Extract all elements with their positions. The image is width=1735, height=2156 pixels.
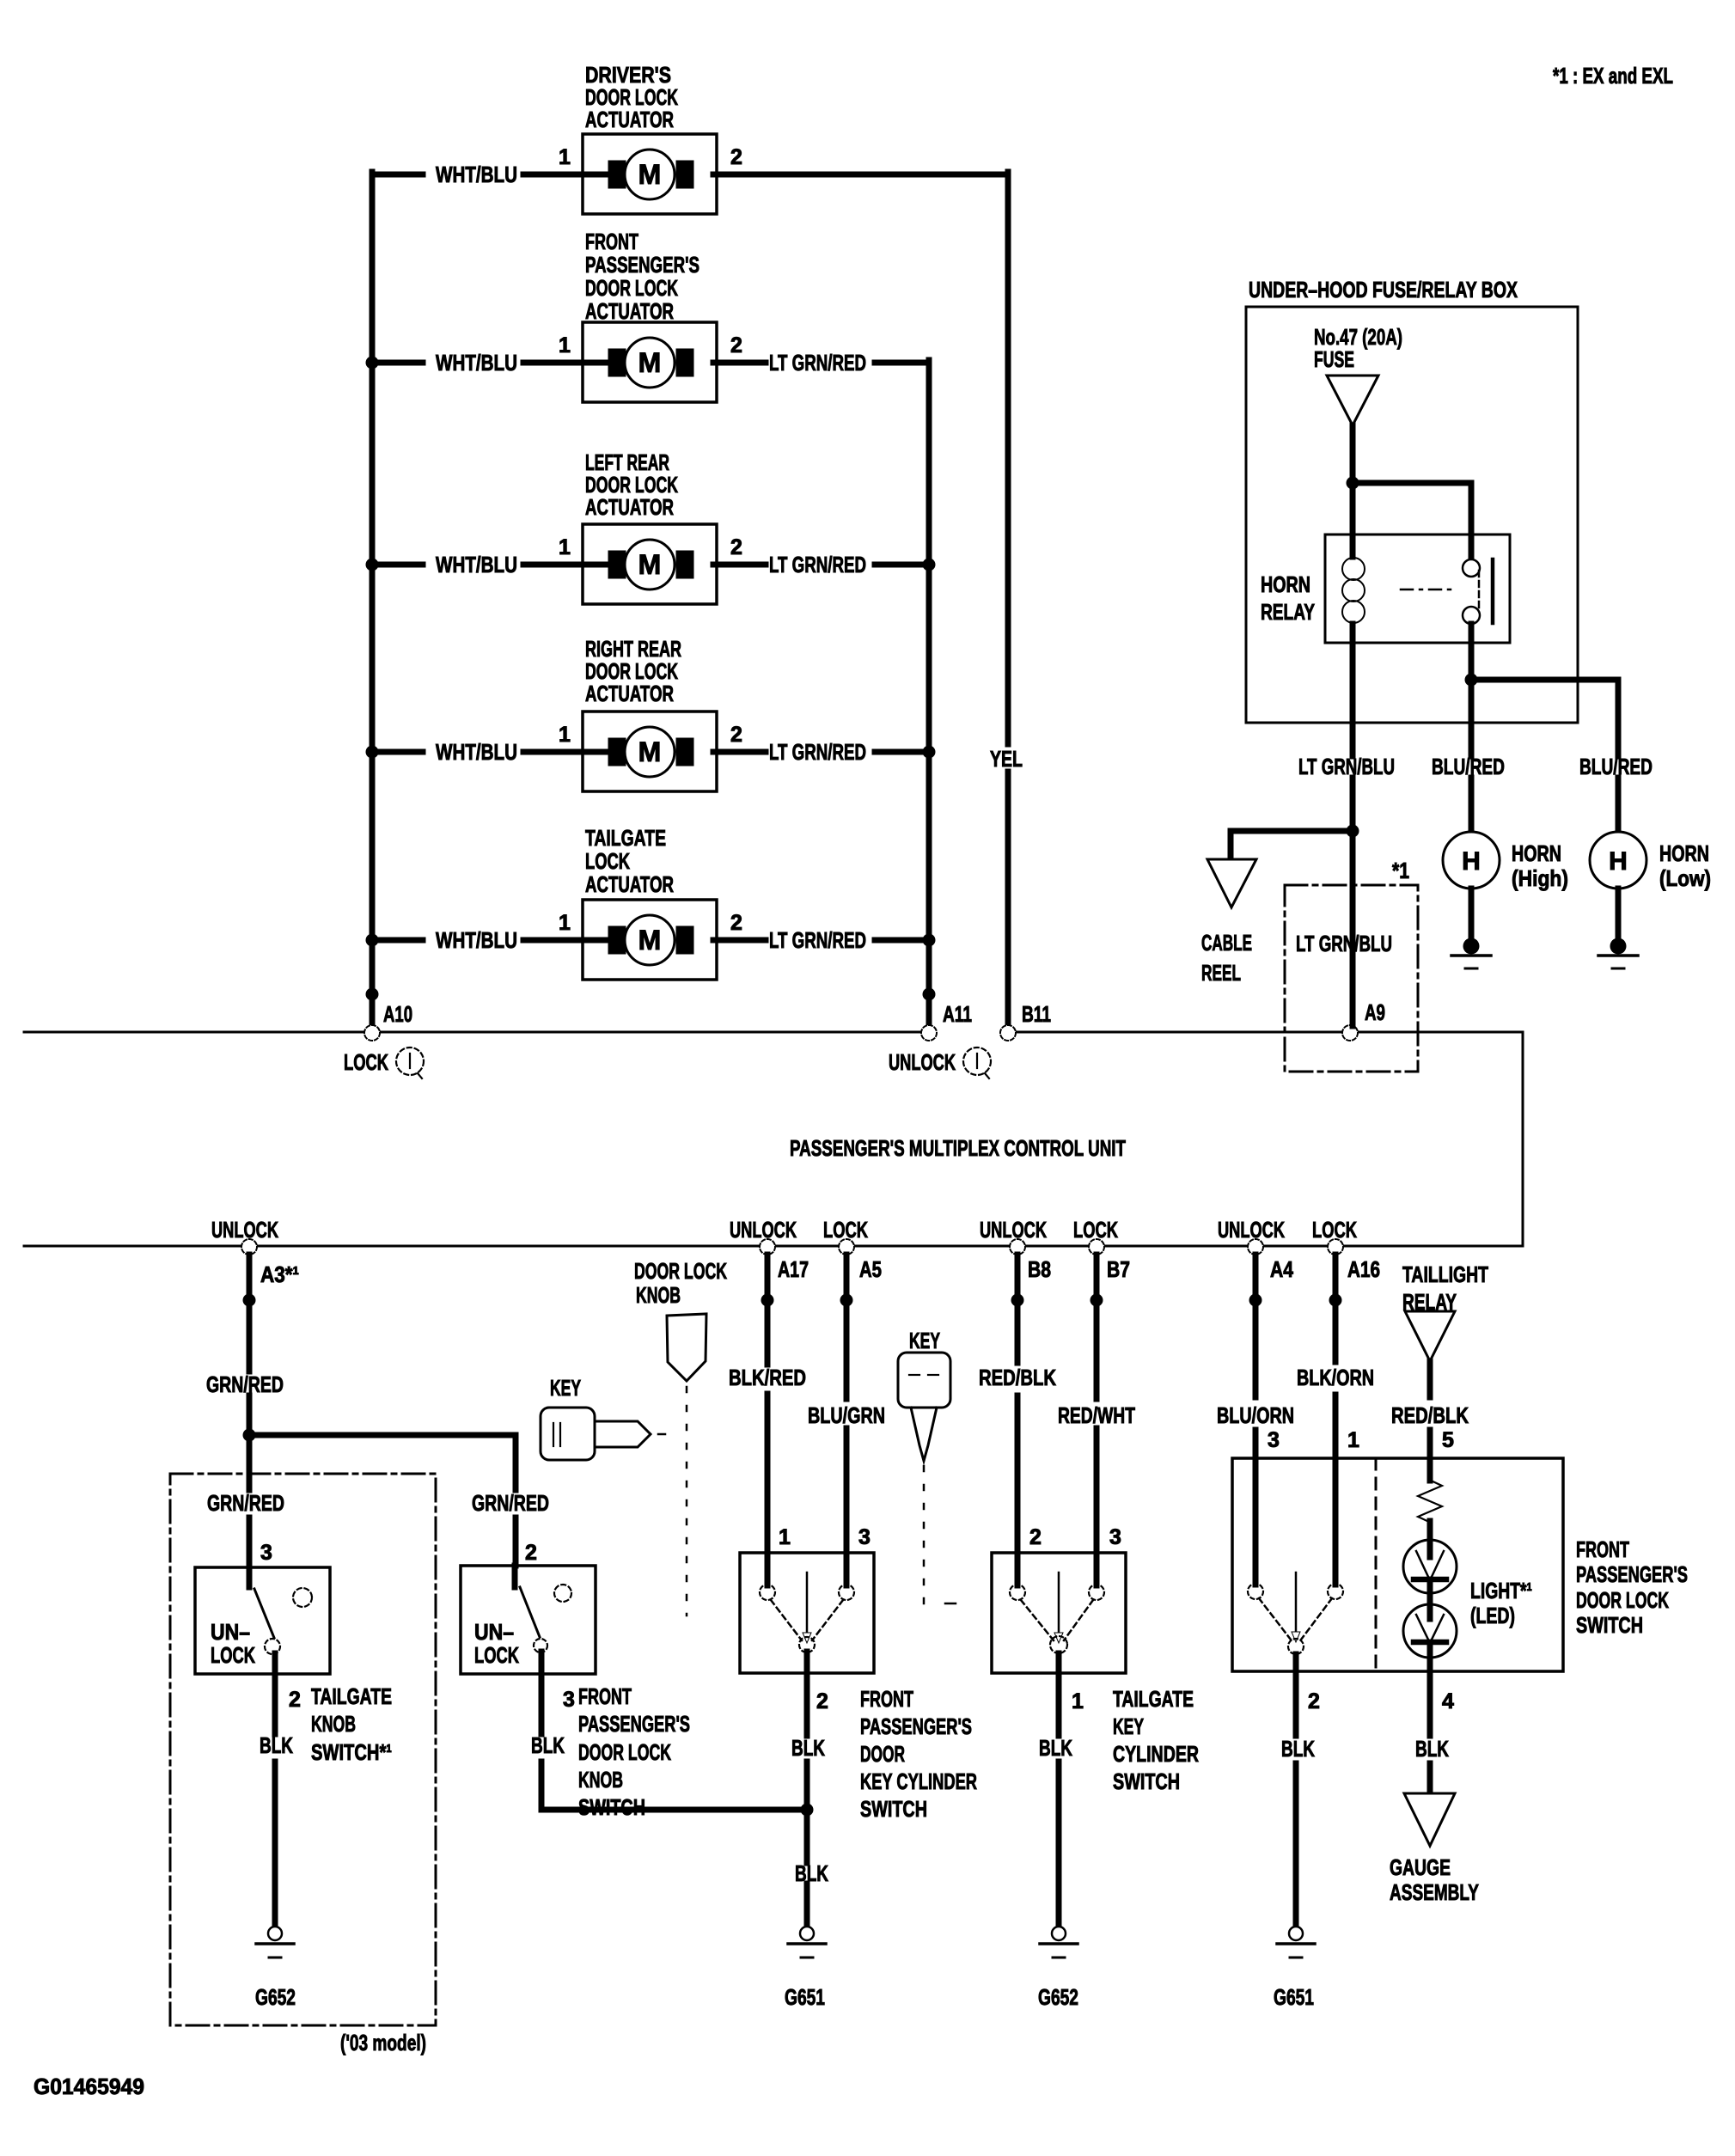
label under-hood fuse/relay box: [1249, 277, 1518, 302]
wire GRN/RED branch to knob switch 2: [249, 1435, 516, 1566]
ground horn low: [1598, 938, 1638, 969]
label No.47 (20A) FUSE: [1314, 324, 1402, 372]
wire passenger knob switch pin 3: [539, 1652, 545, 1810]
horn relay fixed contact bar: [1491, 559, 1495, 623]
wire relay coil to LT GRN/BLU: [1350, 624, 1356, 756]
label BLK/RED: [729, 1365, 806, 1390]
label BLK passenger knob: [531, 1732, 565, 1758]
key 2 link dash: [945, 1603, 956, 1605]
door lock switch divider: [1375, 1458, 1378, 1671]
wire driver's actuator to B11: [713, 172, 1008, 178]
svg-text:TAILGATE: TAILGATE: [585, 825, 666, 851]
svg-text:A3*¹: A3*¹: [260, 1261, 299, 1287]
svg-text:M: M: [638, 736, 662, 767]
wire fuse junction to relay contact: [1353, 483, 1471, 560]
junction B8 splice: [1011, 1294, 1024, 1307]
junction GRN/RED branch: [243, 1429, 256, 1442]
wire BLK/ORN from A16: [1333, 1255, 1339, 1458]
unlock key symbol at A11: [963, 1047, 991, 1078]
svg-text:2: 2: [816, 1689, 828, 1713]
wire BLU/ORN from A4: [1253, 1255, 1259, 1458]
key 2 mechanical link: [923, 1466, 926, 1606]
label UNLOCK above A17: [730, 1217, 797, 1243]
label key 1: [550, 1375, 581, 1401]
svg-text:HORN: HORN: [1512, 840, 1561, 866]
label BLU/GRN: [808, 1402, 885, 1428]
horn relay coil: [1342, 558, 1365, 623]
horn relay box: [1325, 534, 1510, 643]
svg-text:2: 2: [1308, 1689, 1320, 1713]
junction A17 splice: [761, 1294, 774, 1307]
svg-text:UNLOCK: UNLOCK: [211, 1217, 278, 1243]
junction fuse output: [1347, 477, 1359, 490]
wire LT GRN/RED out of M2 front passenger's door lock actuator: [713, 360, 929, 366]
svg-text:BLK/ORN: BLK/ORN: [1297, 1365, 1374, 1390]
junction left bus y=875: [366, 746, 379, 759]
ground tailgate knob switch: [256, 1927, 294, 1958]
label *1 at EX box: [1392, 858, 1409, 883]
svg-text:LT GRN/RED: LT GRN/RED: [769, 350, 866, 376]
svg-text:1: 1: [559, 145, 571, 169]
svg-text:KNOB: KNOB: [311, 1711, 356, 1737]
label pin 2 out door lock switch: [1308, 1689, 1320, 1713]
svg-text:5: 5: [1442, 1428, 1454, 1452]
wire tailgate knob switch pin 2: [272, 1653, 278, 1927]
label pin 3 out passenger knob: [563, 1688, 575, 1712]
label GRN/RED tailgate knob: [207, 1490, 284, 1516]
svg-text:B11: B11: [1022, 1001, 1051, 1027]
svg-text:2: 2: [730, 145, 742, 169]
ground horn high: [1451, 938, 1491, 969]
wire BLK/RED from A17: [765, 1255, 771, 1553]
label LT GRN/RED M4 right rear door lock actuator: [769, 739, 866, 765]
label M4 right rear door lock actuator: [585, 636, 681, 706]
svg-text:PASSENGER'S: PASSENGER'S: [578, 1711, 690, 1737]
label pin B7: [1107, 1256, 1130, 1282]
label key 2: [909, 1328, 940, 1353]
label G651 key cyl: [785, 1984, 825, 2010]
svg-text:ACTUATOR: ACTUATOR: [585, 494, 674, 520]
label BLK gauge: [1415, 1736, 1449, 1762]
fuse No.47 symbol: [1327, 376, 1378, 425]
label UN-LOCK tailgate: [211, 1619, 255, 1668]
wire contact junction to horn low: [1471, 680, 1618, 756]
svg-text:3: 3: [563, 1688, 575, 1712]
key 2 symbol: [898, 1353, 950, 1461]
svg-text:ACTUATOR: ACTUATOR: [585, 871, 674, 897]
lock key symbol at A10: [396, 1047, 424, 1078]
wire WHT/BLU into M2 front passenger's door lock actuator: [372, 360, 612, 366]
svg-text:LT GRN/RED: LT GRN/RED: [769, 927, 866, 953]
pin 2 of M3 left rear door lock actuator: [730, 535, 742, 559]
pin 2 of M4 right rear door lock actuator: [730, 723, 742, 747]
svg-text:2: 2: [1029, 1525, 1042, 1549]
svg-text:M: M: [638, 549, 662, 580]
junction cable reel tap: [1347, 825, 1359, 838]
label BLK/ORN: [1297, 1365, 1374, 1390]
svg-text:LT GRN/RED: LT GRN/RED: [769, 739, 866, 765]
svg-text:BLK: BLK: [791, 1735, 825, 1761]
label M1 driver's door lock actuator: [585, 62, 678, 132]
svg-text:KNOB: KNOB: [636, 1282, 681, 1308]
svg-text:PASSENGER'S MULTIPLEX CONTROL: PASSENGER'S MULTIPLEX CONTROL UNIT: [790, 1135, 1126, 1161]
wire LT GRN/RED out of M5 tailgate lock actuator: [713, 938, 929, 944]
svg-text:DOOR LOCK: DOOR LOCK: [634, 1258, 727, 1284]
svg-text:DOOR: DOOR: [860, 1741, 905, 1767]
svg-text:2: 2: [730, 333, 742, 357]
label passenger's multiplex control unit: [790, 1135, 1126, 1161]
svg-text:A16: A16: [1347, 1256, 1380, 1282]
label WHT/BLU M3 left rear door lock actuator: [436, 552, 517, 577]
wire LT GRN/RED out of M4 right rear door lock actuator: [713, 749, 929, 755]
svg-text:WHT/BLU: WHT/BLU: [436, 739, 517, 765]
label gauge assembly: [1390, 1854, 1479, 1905]
svg-text:1: 1: [559, 333, 571, 357]
svg-text:REEL: REEL: [1201, 960, 1241, 986]
label pin A4: [1270, 1256, 1293, 1282]
tailgate knob switch contacts: [249, 1567, 312, 1654]
svg-text:CABLE: CABLE: [1201, 930, 1252, 956]
wire WHT/BLU into M1 driver's door lock actuator: [372, 172, 612, 178]
label LOCK node: [344, 1049, 388, 1075]
svg-text:A5: A5: [859, 1256, 882, 1282]
control unit top edge: [24, 1031, 1523, 1034]
pin 1 of M2 front passenger's door lock actuator: [559, 333, 571, 357]
wire tailgate key cyl pin 1 to ground: [1056, 1653, 1062, 1927]
label pin A16: [1347, 1256, 1380, 1282]
label front passenger's door key cylinder switch: [860, 1686, 977, 1822]
key 1 link dash: [658, 1433, 665, 1436]
svg-text:RED/BLK: RED/BLK: [1391, 1402, 1469, 1428]
connector A4: [1248, 1239, 1263, 1255]
label tailgate knob switch: [311, 1683, 392, 1765]
svg-text:B8: B8: [1028, 1256, 1051, 1282]
svg-text:G01465949: G01465949: [34, 2074, 144, 2099]
svg-text:SWITCH: SWITCH: [1576, 1612, 1643, 1638]
label WHT/BLU M4 right rear door lock actuator: [436, 739, 517, 765]
svg-text:UNLOCK: UNLOCK: [980, 1217, 1047, 1243]
label UNLOCK above A3: [211, 1217, 278, 1243]
connector A16: [1328, 1239, 1343, 1255]
label UNLOCK node: [889, 1049, 956, 1075]
label GRN/RED passenger knob: [472, 1490, 549, 1516]
pin 1 of M4 right rear door lock actuator: [559, 723, 571, 747]
label pin 4 out door lock switch: [1442, 1689, 1454, 1713]
wire horn high to ground: [1469, 889, 1475, 938]
pin 1 of M5 tailgate lock actuator: [559, 911, 571, 935]
svg-text:LIGHT*¹: LIGHT*¹: [1470, 1578, 1532, 1603]
svg-text:ACTUATOR: ACTUATOR: [585, 107, 674, 132]
connector A5: [839, 1239, 854, 1255]
svg-text:GRN/RED: GRN/RED: [207, 1490, 284, 1516]
label pin 1 door lock switch: [1347, 1428, 1359, 1452]
front passenger's door lock switch box: [1232, 1458, 1563, 1671]
svg-text:2: 2: [730, 911, 742, 935]
junction right bus y=1094: [923, 934, 936, 947]
connector A3: [241, 1239, 257, 1255]
junction left bus y=1157: [366, 988, 379, 1001]
motor M2 front passenger's door lock actuator: [583, 322, 717, 402]
svg-text:LT GRN/RED: LT GRN/RED: [769, 552, 866, 577]
label BLK door lock switch: [1281, 1736, 1315, 1762]
svg-text:BLK: BLK: [260, 1732, 293, 1758]
connector B8: [1010, 1239, 1025, 1255]
label WHT/BLU M2 front passenger's door lock actuator: [436, 350, 517, 376]
label BLK tailgate key cyl: [1039, 1735, 1072, 1761]
label GRN/RED at A3: [206, 1371, 284, 1397]
svg-text:M: M: [638, 347, 662, 378]
svg-text:2: 2: [525, 1541, 537, 1565]
svg-text:2: 2: [289, 1688, 301, 1712]
ground passenger key cylinder: [788, 1927, 826, 1958]
wire pin 5 to resistor: [1427, 1458, 1433, 1481]
svg-text:*1: *1: [1392, 858, 1409, 883]
label pin 1 out tailgate key cyl: [1072, 1689, 1084, 1713]
svg-text:H: H: [1609, 847, 1628, 876]
taillight relay symbol: [1405, 1311, 1455, 1361]
wire LT GRN/RED right bus: [926, 360, 932, 1026]
wire passenger knob to splice: [541, 1807, 807, 1813]
horn relay movable contact: [1478, 571, 1481, 610]
svg-text:UN–: UN–: [211, 1619, 250, 1645]
label pin 2 out key cyl: [816, 1689, 828, 1713]
door lock knob symbol: [667, 1314, 706, 1381]
svg-text:1: 1: [559, 723, 571, 747]
control unit right edge: [1522, 1032, 1524, 1246]
resistor in door lock switch: [1418, 1480, 1442, 1522]
key 1 symbol: [541, 1408, 651, 1460]
svg-text:ACTUATOR: ACTUATOR: [585, 298, 674, 324]
svg-text:FRONT: FRONT: [860, 1686, 913, 1712]
wire resistor to LED1: [1427, 1521, 1433, 1557]
svg-text:PASSENGER'S: PASSENGER'S: [1576, 1561, 1688, 1587]
svg-text:GRN/RED: GRN/RED: [206, 1371, 284, 1397]
svg-text:*1 : EX and EXL: *1 : EX and EXL: [1553, 63, 1673, 89]
label A11: [943, 1001, 972, 1027]
junction B7 splice: [1090, 1294, 1103, 1307]
svg-text:LT GRN/BLU: LT GRN/BLU: [1298, 754, 1395, 779]
svg-text:(High): (High): [1512, 865, 1568, 891]
label G652 tailgate knob: [255, 1984, 296, 2010]
svg-text:WHT/BLU: WHT/BLU: [436, 350, 517, 376]
svg-text:BLK: BLK: [1415, 1736, 1449, 1762]
wire RED/BLK from B8: [1015, 1255, 1021, 1553]
wire RED/BLK from taillight relay: [1427, 1361, 1433, 1458]
label LOCK above B7: [1073, 1217, 1118, 1243]
gauge assembly symbol: [1404, 1793, 1455, 1846]
svg-text:BLK: BLK: [1281, 1736, 1315, 1762]
svg-text:KEY: KEY: [1113, 1713, 1144, 1739]
junction A4 splice: [1249, 1294, 1262, 1307]
svg-text:1: 1: [559, 911, 571, 935]
svg-text:(Low): (Low): [1659, 865, 1711, 891]
svg-text:1: 1: [779, 1525, 791, 1549]
label BLK tailgate knob: [260, 1732, 293, 1758]
svg-text:ACTUATOR: ACTUATOR: [585, 681, 674, 706]
label horn high: [1512, 840, 1568, 891]
svg-text:GAUGE: GAUGE: [1390, 1854, 1451, 1880]
svg-text:LOCK: LOCK: [823, 1217, 868, 1243]
svg-text:G651: G651: [785, 1984, 825, 2010]
svg-text:KEY CYLINDER: KEY CYLINDER: [860, 1768, 977, 1794]
label BLU/RED horn high: [1432, 754, 1505, 779]
svg-text:FRONT: FRONT: [585, 229, 638, 254]
junction BLK splice: [801, 1804, 814, 1817]
motor M5 tailgate lock actuator: [583, 900, 717, 980]
svg-text:3: 3: [1268, 1428, 1280, 1452]
label pin A17: [778, 1256, 809, 1282]
svg-text:BLK: BLK: [795, 1860, 828, 1886]
pin 1 of M3 left rear door lock actuator: [559, 535, 571, 559]
svg-text:KEY: KEY: [909, 1328, 940, 1353]
svg-text:LT GRN/BLU: LT GRN/BLU: [1296, 931, 1392, 956]
svg-text:(LED): (LED): [1470, 1603, 1515, 1628]
connector A17: [760, 1239, 775, 1255]
wire fuse to relay coil: [1350, 425, 1356, 557]
svg-text:HORN: HORN: [1261, 571, 1310, 597]
label UN-LOCK passenger: [474, 1619, 519, 1668]
label pin A3*¹: [260, 1261, 299, 1287]
horn high symbol: [1443, 832, 1500, 889]
cable reel symbol: [1207, 859, 1256, 907]
svg-text:B7: B7: [1107, 1256, 1130, 1282]
svg-text:1: 1: [559, 535, 571, 559]
label BLU/ORN: [1217, 1402, 1294, 1428]
svg-text:G652: G652: [1038, 1984, 1078, 2010]
ground door lock switch: [1277, 1927, 1315, 1958]
label RED/BLK: [979, 1365, 1056, 1390]
motor M4 right rear door lock actuator: [583, 712, 717, 791]
wire BLU/RED to horn low: [1616, 778, 1622, 832]
svg-text:RED/BLK: RED/BLK: [979, 1365, 1056, 1390]
label LIGHT (LED): [1470, 1578, 1532, 1628]
svg-text:TAILGATE: TAILGATE: [1113, 1686, 1194, 1712]
svg-text:RELAY: RELAY: [1261, 599, 1315, 625]
svg-text:BLK: BLK: [531, 1732, 565, 1758]
label UNLOCK above A4: [1218, 1217, 1285, 1243]
ground tailgate key cylinder: [1040, 1927, 1078, 1958]
svg-text:DOOR LOCK: DOOR LOCK: [585, 275, 678, 301]
wire LT GRN/BLU to A9: [1350, 778, 1356, 1026]
wire LED2 to gauge assembly: [1427, 1642, 1433, 1793]
svg-text:UNLOCK: UNLOCK: [1218, 1217, 1285, 1243]
svg-text:G652: G652: [255, 1984, 296, 2010]
svg-text:KEY: KEY: [550, 1375, 581, 1401]
wire WHT/BLU into M4 right rear door lock actuator: [372, 749, 612, 755]
dash-dot box '03 model: [170, 1474, 436, 2025]
junction right bus y=657: [923, 559, 936, 571]
LED1 lamp: [1403, 1540, 1457, 1593]
svg-text:BLK: BLK: [1039, 1735, 1072, 1761]
svg-text:KNOB: KNOB: [578, 1767, 623, 1793]
label LOCK above A5: [823, 1217, 868, 1243]
svg-text:H: H: [1462, 847, 1481, 876]
control unit bottom edge: [24, 1245, 1523, 1248]
svg-text:DOOR LOCK: DOOR LOCK: [578, 1739, 671, 1765]
svg-text:LOCK: LOCK: [1073, 1217, 1118, 1243]
connector B7: [1089, 1239, 1104, 1255]
horn relay link: [1401, 589, 1456, 591]
label LT GRN/RED M3 left rear door lock actuator: [769, 552, 866, 577]
label LT GRN/BLU inside box: [1296, 931, 1392, 956]
label BLK key cyl: [791, 1735, 825, 1761]
svg-text:A17: A17: [778, 1256, 809, 1282]
label tailgate key cylinder switch: [1113, 1686, 1199, 1794]
svg-text:M: M: [638, 925, 662, 956]
label LT GRN/RED M2 front passenger's door lock actuator: [769, 350, 866, 376]
svg-text:A4: A4: [1270, 1256, 1293, 1282]
wire GRN/RED into tailgate knob switch: [247, 1435, 253, 1567]
svg-text:FUSE: FUSE: [1314, 346, 1354, 372]
connector B11: [1000, 1025, 1016, 1041]
label RED/BLK taillight: [1391, 1402, 1469, 1428]
svg-text:1: 1: [1072, 1689, 1084, 1713]
svg-text:UNLOCK: UNLOCK: [889, 1049, 956, 1075]
svg-text:BLK/RED: BLK/RED: [729, 1365, 806, 1390]
pin 1 of M1 driver's door lock actuator: [559, 145, 571, 169]
motor M1 driver's door lock actuator: [583, 134, 717, 214]
connector A10: [364, 1025, 380, 1041]
pin 2 of M1 driver's door lock actuator: [730, 145, 742, 169]
svg-text:DOOR LOCK: DOOR LOCK: [1576, 1587, 1669, 1613]
svg-text:3: 3: [1109, 1525, 1121, 1549]
svg-text:BLU/GRN: BLU/GRN: [808, 1402, 885, 1428]
pin 2 of M5 tailgate lock actuator: [730, 911, 742, 935]
svg-text:LOCK: LOCK: [211, 1642, 255, 1668]
passenger knob switch box: [461, 1566, 596, 1674]
wire key cyl sw pin 2 to ground: [804, 1652, 810, 1927]
tailgate key cylinder switch contacts: [1010, 1553, 1104, 1653]
passenger key cylinder switch box: [740, 1553, 874, 1673]
wire LT GRN/RED out of M3 left rear door lock actuator: [713, 562, 929, 568]
svg-text:3: 3: [858, 1525, 871, 1549]
label A9: [1365, 999, 1385, 1025]
LED2 lamp: [1403, 1604, 1457, 1658]
connector A11: [921, 1025, 937, 1041]
passenger knob switch contacts: [515, 1566, 571, 1652]
svg-text:TAILGATE: TAILGATE: [311, 1683, 392, 1709]
svg-text:SWITCH*¹: SWITCH*¹: [311, 1739, 392, 1765]
motor M3 left rear door lock actuator: [583, 524, 717, 604]
label pin 5 door lock switch: [1442, 1428, 1454, 1452]
wire to cable reel: [1231, 831, 1353, 859]
label RED/WHT: [1058, 1402, 1135, 1428]
wire GRN/RED from A3: [247, 1255, 253, 1435]
label G651 door lock switch: [1274, 1984, 1314, 2010]
connector A9: [1342, 1025, 1358, 1041]
svg-text:UN–: UN–: [474, 1619, 514, 1645]
wire horn low to ground: [1616, 889, 1622, 938]
label BLU/RED horn low: [1579, 754, 1653, 779]
svg-text:HORN: HORN: [1659, 840, 1709, 866]
junction right bus y=1157: [923, 988, 936, 1001]
svg-text:WHT/BLU: WHT/BLU: [436, 552, 517, 577]
label pin 3 tailgate key cyl: [1109, 1525, 1121, 1549]
label LT GRN/BLU: [1298, 754, 1395, 779]
note *1 EX and EXL: [1553, 63, 1673, 89]
junction A3 splice: [243, 1294, 256, 1307]
label pin A5: [859, 1256, 882, 1282]
label M5 tailgate lock actuator: [585, 825, 674, 897]
svg-text:('03 model): ('03 model): [340, 2030, 426, 2055]
label WHT/BLU M5 tailgate lock actuator: [436, 927, 517, 953]
passenger key cylinder switch contacts: [760, 1553, 854, 1652]
svg-text:2: 2: [730, 723, 742, 747]
svg-text:BLU/ORN: BLU/ORN: [1217, 1402, 1294, 1428]
tailgate key cylinder switch box: [992, 1553, 1126, 1673]
svg-text:3: 3: [260, 1541, 272, 1565]
wire WHT/BLU into M3 left rear door lock actuator: [372, 562, 612, 568]
